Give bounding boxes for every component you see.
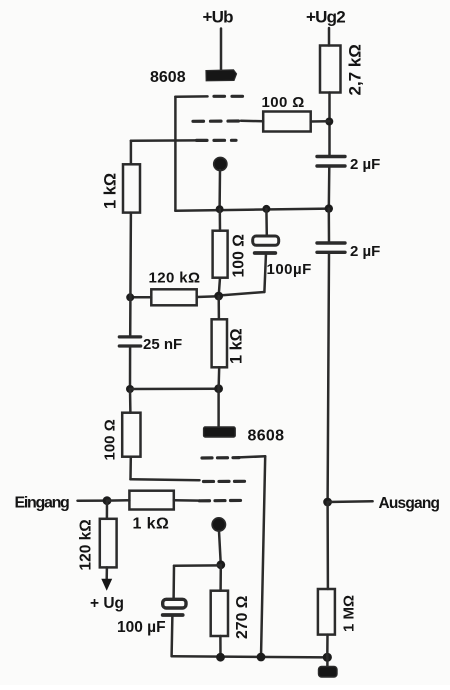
- wire cathode node to cap branch: [174, 564, 221, 567]
- node bus/1M junction: [323, 653, 332, 662]
- wire 100Ω bottom to node: [219, 278, 220, 296]
- svg-text:100 µF: 100 µF: [117, 619, 166, 636]
- wire grid2 U1 to 100Ω: [241, 120, 263, 123]
- tube U2 anode plate: [204, 427, 236, 437]
- wire right rail 2uF top: [328, 209, 331, 243]
- wire 1M to bus: [326, 635, 329, 658]
- svg-text:Ausgang: Ausgang: [379, 495, 440, 512]
- svg-text:1 kΩ: 1 kΩ: [102, 173, 120, 209]
- wire 100Ω bottom jog: [129, 457, 132, 480]
- wire output node to 1M: [326, 502, 329, 589]
- wire 1k to grid1 U2: [174, 499, 200, 502]
- tube U2 grid g2 (dashed): [204, 480, 246, 483]
- svg-text:120 kΩ: 120 kΩ: [149, 270, 201, 287]
- resistor 1 kΩ (grid stopper, horizontal): [129, 491, 173, 533]
- wire 270 to ground bus: [219, 636, 222, 657]
- wire right rail long: [328, 252, 329, 502]
- resistor 100 Ω (screen feed, top): [262, 94, 311, 132]
- svg-text:25 nF: 25 nF: [143, 336, 182, 353]
- resistor 120 kΩ (lower left vertical): [78, 519, 117, 571]
- svg-text:100µF: 100µF: [267, 261, 312, 278]
- node input junction: [103, 496, 112, 505]
- svg-text:120 kΩ: 120 kΩ: [78, 519, 95, 570]
- wire 1k bottom to node: [217, 367, 220, 388]
- svg-text:100 Ω: 100 Ω: [231, 234, 248, 278]
- resistor 1 MΩ: [318, 589, 358, 635]
- svg-text:2,7 kΩ: 2,7 kΩ: [346, 44, 365, 95]
- resistor 1 kΩ (mid vertical): [212, 319, 246, 367]
- wire 100Ω to +Ug2 rail: [311, 120, 330, 123]
- svg-text:100 Ω: 100 Ω: [102, 419, 119, 460]
- tube U1 anode plate: [206, 70, 237, 81]
- svg-text:1 MΩ: 1 MΩ: [341, 595, 358, 632]
- node bus/270 junction: [216, 653, 225, 662]
- wire g3 to left vertical: [175, 95, 207, 98]
- svg-text:1 kΩ: 1 kΩ: [228, 328, 246, 364]
- wire cathode node to 270: [219, 565, 222, 591]
- wire U1 cathode lead: [218, 170, 221, 209]
- wire left rail middle: [129, 213, 132, 337]
- resistor 100 Ω (mid vertical): [213, 231, 248, 278]
- wire left rail top: [130, 141, 133, 165]
- node 1kΩ bottom / anode feed: [214, 384, 223, 393]
- node cathode junction U2: [216, 560, 225, 569]
- wire cap to ground bus: [170, 615, 173, 656]
- node output junction: [323, 498, 332, 507]
- node bus/cathode junction: [216, 205, 224, 213]
- node 120k/100Ω/1kΩ junction: [214, 292, 223, 301]
- node bus/100uF junction: [262, 205, 270, 213]
- node bus/g3 junction: [257, 653, 266, 662]
- wire +Ug2 lead: [328, 28, 331, 46]
- wire anode feed to U2 plate: [217, 389, 220, 427]
- ground: [319, 667, 338, 678]
- wire Eingang lead: [78, 499, 108, 502]
- wire 100uF return: [264, 253, 266, 292]
- wire 2,7k bottom to 2uF cap: [328, 93, 331, 157]
- svg-text:270 Ω: 270 Ω: [234, 595, 251, 639]
- wire +Ub to anode of U1: [220, 29, 223, 71]
- wire left rail to 100Ω: [129, 389, 132, 413]
- wire ground bus: [172, 656, 328, 657]
- svg-text:2 µF: 2 µF: [350, 156, 380, 173]
- wire 2uF to bus junction: [328, 166, 331, 209]
- wire input node to 120k: [106, 501, 109, 519]
- wire g1 to left rail: [131, 139, 197, 142]
- tube U1 grid g1 (dashed): [197, 139, 237, 142]
- node bus/right-rail junction: [325, 204, 333, 212]
- node left rail / 120k: [126, 293, 134, 301]
- svg-text:2 µF: 2 µF: [350, 243, 380, 260]
- wire left rail below 25nF: [129, 346, 132, 389]
- tube U1 grid g3 (dashed): [214, 95, 243, 98]
- wire 120k to arrow: [105, 567, 108, 579]
- wire g3 vertical to cathode bus: [174, 97, 177, 211]
- wire 120k right lead: [197, 295, 219, 298]
- resistor 1 kΩ (left vertical): [102, 164, 141, 212]
- svg-text:8608: 8608: [248, 428, 285, 445]
- tube U1 cathode: [214, 157, 227, 170]
- capacitor 100µF (upper electrolytic): [253, 209, 312, 278]
- capacitor 100 µF (cathode bypass electrolytic): [117, 599, 186, 636]
- wire node to 1k top: [217, 296, 220, 319]
- wire g3 vertical down to ground bus: [261, 456, 265, 657]
- tube U1 grid g2 (dashed): [193, 119, 241, 123]
- resistor 100 Ω (lower left vertical): [102, 413, 141, 461]
- node junction 100Ω / 2,7kΩ: [325, 118, 333, 126]
- wire horizontal y389: [130, 387, 219, 390]
- svg-text:8608: 8608: [150, 69, 186, 86]
- wire Ausgang lead: [328, 500, 373, 503]
- wire g3 to right vertical: [239, 456, 265, 457]
- svg-text:100 Ω: 100 Ω: [262, 94, 305, 111]
- wire bus to 100Ω top: [219, 209, 222, 231]
- wire to grid2 of U2: [131, 478, 200, 481]
- wire 120k left lead: [130, 296, 151, 299]
- svg-text:+Ug2: +Ug2: [306, 8, 345, 27]
- resistor 120 kΩ (horizontal): [149, 270, 201, 306]
- svg-text:+ Ug: + Ug: [90, 595, 124, 612]
- tube U2 grid g3 (dashed): [202, 456, 239, 460]
- wire cathode bus: [175, 209, 328, 211]
- svg-text:1 kΩ: 1 kΩ: [133, 516, 170, 533]
- resistor 270 Ω (cathode): [211, 591, 251, 639]
- resistor 2,7 kΩ: [320, 44, 365, 95]
- wire input to 1k: [107, 499, 129, 502]
- capacitor 25 nF: [119, 336, 182, 353]
- wire U2 cathode lead: [219, 531, 221, 565]
- svg-text:+Ub: +Ub: [203, 8, 234, 27]
- node + Ug arrow: [101, 579, 112, 591]
- tube U2 grid g1 (dashed): [200, 499, 246, 503]
- tube U2 cathode: [212, 518, 225, 531]
- wire bus to ground: [326, 657, 329, 667]
- capacitor 2 µF (lower): [317, 243, 380, 260]
- svg-text:Eingang: Eingang: [15, 495, 70, 512]
- node left rail y389: [126, 385, 134, 393]
- wire cap branch vertical: [172, 566, 175, 600]
- capacitor 2 µF (upper): [317, 156, 380, 173]
